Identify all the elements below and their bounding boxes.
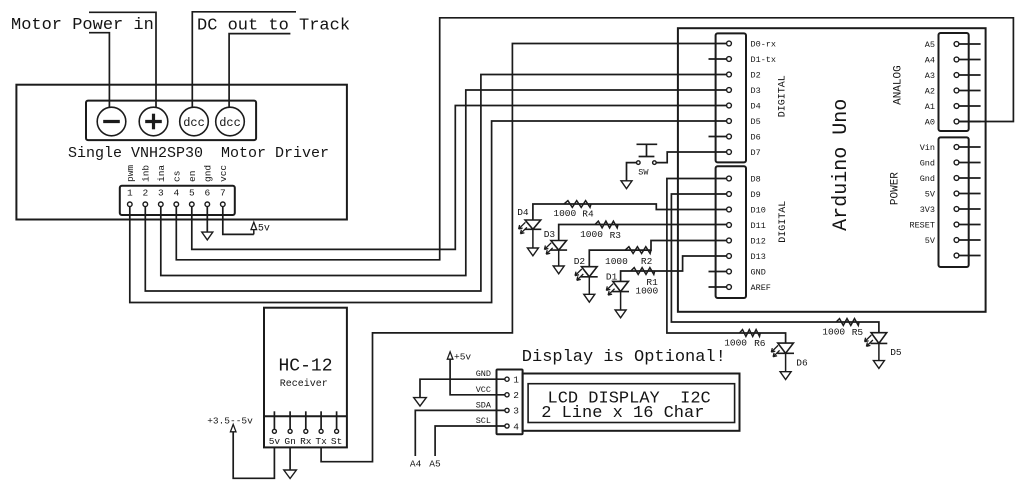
svg-text:DC out to Track: DC out to Track — [197, 16, 350, 35]
label "Receiver" — [280, 378, 328, 390]
label SW — [638, 167, 649, 177]
stub AREF — [709, 286, 727, 288]
pin D3 — [727, 86, 761, 96]
power +3.5--5v arrow — [207, 415, 253, 432]
ground at D5 — [873, 361, 884, 369]
pin 5 label en — [187, 171, 198, 199]
svg-text:D11: D11 — [751, 221, 766, 231]
svg-text:gnd: gnd — [203, 165, 214, 182]
pin D7 — [727, 148, 761, 158]
resistor R3 — [595, 221, 618, 228]
wire D9 to R5 to D5 — [671, 194, 879, 333]
label "LCD DISPLAY I2C" — [548, 389, 711, 408]
pin Vin — [920, 143, 981, 153]
svg-text:1000: 1000 — [822, 327, 845, 338]
pin GND — [727, 268, 766, 278]
wire SW to D7 — [656, 152, 726, 163]
svg-text:4: 4 — [173, 188, 179, 199]
stub D6 — [709, 136, 727, 138]
HC-12 pin Tx — [315, 411, 327, 447]
ground at pin6 — [202, 232, 213, 240]
label "Single VNH2SP30 Motor Driver" — [68, 145, 329, 162]
label R6 — [754, 338, 766, 349]
svg-text:RESET: RESET — [909, 221, 935, 231]
svg-text:D7: D7 — [751, 148, 761, 158]
pushbutton SW — [637, 144, 658, 164]
pin D5 — [727, 117, 761, 127]
wire LCD GND to ground — [420, 379, 505, 397]
label R1 — [646, 277, 658, 288]
LCD pin 1 GND — [476, 369, 520, 385]
ground at D3 — [553, 266, 564, 274]
label DIGITAL lower — [778, 201, 789, 243]
wire pin1 pwm to D5 — [130, 121, 727, 303]
svg-text:5v: 5v — [258, 224, 270, 235]
pin A4 — [925, 56, 981, 66]
label "Motor Power in" — [11, 16, 154, 35]
wire Motor Power in to + terminal — [89, 12, 156, 107]
svg-text:D4: D4 — [517, 207, 529, 218]
svg-text:5v: 5v — [269, 436, 281, 447]
wire HC-12 5v to supply — [233, 432, 274, 478]
power 5v arrow at pin7 — [251, 222, 270, 234]
svg-text:Gnd: Gnd — [920, 159, 935, 169]
wire pin3 ina to D3 — [161, 90, 727, 276]
svg-text:HC-12: HC-12 — [278, 356, 332, 376]
LED D5 — [865, 333, 888, 361]
svg-text:dcc: dcc — [183, 116, 205, 130]
pin 5 circle — [190, 202, 195, 207]
svg-text:5: 5 — [189, 188, 195, 199]
ground at D1 — [615, 310, 626, 318]
svg-text:Vin: Vin — [920, 143, 935, 153]
svg-text:2 Line x 16 Char: 2 Line x 16 Char — [541, 404, 704, 423]
pin Gnd — [920, 174, 981, 184]
pin 3 label ina — [156, 165, 167, 199]
svg-text:D2: D2 — [751, 71, 761, 81]
svg-text:POWER: POWER — [890, 172, 902, 205]
svg-text:vcc: vcc — [218, 165, 229, 182]
svg-text:D9: D9 — [751, 190, 761, 200]
pin unlabeled — [954, 253, 981, 258]
svg-text:Gn: Gn — [284, 436, 295, 447]
label D4 — [517, 207, 529, 218]
wire pin4 cs to A0 — [176, 18, 1013, 260]
svg-text:A1: A1 — [925, 102, 935, 112]
wire LCD SCL to A5 — [435, 426, 505, 456]
svg-text:Arduino Uno: Arduino Uno — [830, 99, 853, 231]
pin 6 label gnd — [203, 165, 214, 199]
wire DC out to dcc terminal 1 — [192, 12, 296, 108]
wire LCD VCC to +5v — [450, 359, 505, 395]
pin RESET — [909, 221, 980, 231]
wire HC-12 Gn to ground — [289, 447, 291, 470]
analog connector A5-A0 — [939, 33, 969, 131]
label R5 — [852, 327, 864, 338]
svg-text:R2: R2 — [641, 256, 653, 267]
Arduino Uno box — [678, 28, 986, 312]
resistor R2 — [625, 247, 651, 254]
motor driver box VNH2SP30 — [16, 85, 347, 220]
svg-text:1: 1 — [513, 375, 519, 386]
digital connector D0-D7 — [716, 33, 746, 162]
pin 5V — [925, 190, 981, 200]
pin D13 — [727, 252, 766, 262]
ground at D6 — [780, 372, 791, 380]
svg-text:cs: cs — [172, 171, 183, 182]
label D5 — [890, 347, 902, 358]
svg-text:GND: GND — [476, 369, 491, 379]
label D3 — [544, 229, 556, 240]
resistor R5 — [836, 319, 859, 326]
label "Display is Optional!" — [522, 348, 726, 367]
label R5 value 1000 — [822, 327, 845, 338]
LED D2 — [575, 267, 598, 295]
pin D9 — [727, 190, 761, 200]
svg-text:5V: 5V — [925, 190, 936, 200]
LED D4 — [519, 220, 542, 248]
svg-text:D8: D8 — [751, 175, 761, 185]
svg-text:R4: R4 — [582, 209, 594, 220]
svg-text:Receiver: Receiver — [280, 378, 328, 390]
wire pin6 gnd — [206, 204, 208, 232]
svg-text:DIGITAL: DIGITAL — [778, 201, 789, 243]
svg-text:D5: D5 — [890, 347, 902, 358]
ground at D4 — [527, 248, 538, 256]
motor driver connector J1 — [120, 186, 235, 215]
label R6 value 1000 — [724, 338, 747, 349]
LCD connector box — [497, 370, 523, 435]
pin 7 circle — [221, 202, 226, 207]
pin D10 — [727, 206, 766, 216]
svg-text:+5v: +5v — [454, 352, 471, 363]
label R3 — [610, 230, 622, 241]
svg-text:1: 1 — [127, 188, 133, 199]
ground at LCD GND — [414, 398, 427, 407]
svg-text:Display is Optional!: Display is Optional! — [522, 348, 726, 367]
label POWER — [890, 172, 902, 205]
svg-text:D1-tx: D1-tx — [751, 55, 777, 65]
svg-text:D3: D3 — [544, 229, 556, 240]
wire D4 to R4 to D10 — [533, 204, 727, 220]
pin 7 label vcc — [218, 165, 229, 199]
HC-12 pin Gn — [284, 411, 295, 447]
label ANALOG — [893, 65, 905, 105]
svg-text:1000: 1000 — [605, 256, 628, 267]
svg-text:R6: R6 — [754, 338, 766, 349]
pin 1 circle — [128, 202, 133, 207]
svg-text:AREF: AREF — [751, 283, 771, 293]
wire SW to ground — [627, 163, 637, 181]
svg-text:A5: A5 — [429, 459, 441, 470]
wire D8 to R6 to D6 — [667, 179, 786, 344]
svg-text:A4: A4 — [410, 459, 422, 470]
svg-text:R3: R3 — [610, 230, 622, 241]
svg-text:D12: D12 — [751, 237, 766, 247]
label DIGITAL upper — [778, 75, 789, 117]
LCD pin 2 VCC — [476, 385, 520, 401]
digital connector D8-AREF — [716, 166, 746, 298]
svg-text:D3: D3 — [751, 86, 761, 96]
svg-text:D13: D13 — [751, 252, 766, 262]
svg-text:SW: SW — [638, 167, 649, 177]
label "HC-12" — [278, 356, 332, 376]
svg-text:3: 3 — [513, 406, 519, 417]
svg-text:Single VNH2SP30 Motor Driver: Single VNH2SP30 Motor Driver — [68, 145, 329, 162]
HC-12 pin 5v — [269, 411, 281, 447]
wire pin7 vcc to 5v — [223, 204, 254, 234]
stub D1-tx — [709, 58, 727, 60]
svg-text:1000: 1000 — [724, 338, 747, 349]
LCD display outer box — [523, 374, 740, 431]
terminal - (minus) — [97, 107, 126, 136]
resistor R4 — [564, 201, 591, 208]
pin 1 label pwm — [125, 165, 136, 199]
svg-text:5V: 5V — [925, 236, 936, 246]
pin 4 label cs — [172, 171, 183, 199]
svg-text:1000: 1000 — [580, 229, 603, 240]
LCD pin 4 SCL — [476, 416, 520, 432]
label "DC out to Track" — [197, 16, 350, 35]
svg-text:en: en — [187, 171, 198, 182]
svg-text:dcc: dcc — [219, 116, 241, 130]
resistor R1 — [631, 268, 655, 275]
LED D1 — [606, 281, 629, 310]
svg-text:ina: ina — [156, 165, 167, 182]
stub GND — [709, 271, 727, 273]
HC-12 box — [264, 308, 347, 448]
svg-text:D1: D1 — [606, 272, 618, 283]
label A5 — [429, 459, 441, 470]
pin D1-tx — [727, 55, 776, 65]
label R4 value 1000 — [553, 208, 576, 219]
svg-text:inb: inb — [141, 165, 152, 182]
svg-text:3V3: 3V3 — [920, 205, 935, 215]
HC-12 pin St — [331, 411, 342, 447]
wire Motor Power in to - terminal — [89, 33, 109, 108]
svg-text:A5: A5 — [925, 40, 935, 50]
LED D6 — [771, 343, 794, 372]
svg-text:2: 2 — [142, 188, 148, 199]
pin Gnd — [920, 159, 981, 169]
pin AREF — [727, 283, 771, 293]
svg-text:3: 3 — [158, 188, 164, 199]
label A4 — [410, 459, 422, 470]
HC-12 pin Rx — [300, 411, 312, 447]
svg-text:1000: 1000 — [635, 285, 658, 296]
label D6 — [796, 358, 808, 369]
wire HC-12 Tx to D0-rx — [321, 44, 726, 462]
svg-text:A3: A3 — [925, 71, 935, 81]
label R3 value 1000 — [580, 229, 603, 240]
svg-text:Rx: Rx — [300, 436, 312, 447]
svg-text:2: 2 — [513, 390, 519, 401]
svg-text:D6: D6 — [751, 133, 761, 143]
ground at SW — [621, 181, 632, 189]
svg-text:A4: A4 — [925, 56, 935, 66]
svg-text:D0-rx: D0-rx — [751, 40, 777, 50]
power connector — [939, 137, 969, 267]
pin 5V — [925, 236, 981, 246]
svg-text:A0: A0 — [925, 118, 935, 128]
pin A2 — [925, 87, 981, 97]
terminal dcc 1 — [180, 107, 209, 136]
pin 3 circle — [159, 202, 164, 207]
wire pin2 inb to D2 — [145, 75, 726, 292]
terminal block — [86, 101, 256, 141]
pin D4 — [727, 102, 761, 112]
svg-text:1000: 1000 — [553, 208, 576, 219]
pin D12 — [727, 237, 766, 247]
wire pin5 en to D4 — [192, 106, 727, 250]
svg-text:GND: GND — [751, 268, 766, 278]
svg-text:A2: A2 — [925, 87, 935, 97]
svg-text:ANALOG: ANALOG — [893, 65, 905, 105]
LCD pin 3 SDA — [476, 400, 520, 416]
LED D3 — [544, 241, 567, 267]
label R4 — [582, 209, 594, 220]
label R2 — [641, 256, 653, 267]
pin 6 circle — [205, 202, 210, 207]
ground at D2 — [584, 294, 595, 302]
svg-text:+3.5--5v: +3.5--5v — [207, 415, 253, 426]
pin D6 — [727, 133, 761, 143]
wire D1 to R1 to D13 — [621, 256, 727, 281]
wire LCD SDA to A4 — [415, 410, 505, 456]
svg-text:Tx: Tx — [315, 436, 327, 447]
pin 4 circle — [174, 202, 179, 207]
svg-text:D6: D6 — [796, 358, 808, 369]
svg-text:D10: D10 — [751, 206, 766, 216]
pin A0 — [925, 118, 981, 128]
pin D8 — [727, 175, 761, 185]
svg-text:St: St — [331, 436, 342, 447]
pin D11 — [727, 221, 766, 231]
svg-text:6: 6 — [204, 188, 210, 199]
terminal dcc 2 — [216, 107, 245, 136]
pin 2 label inb — [141, 165, 152, 199]
pin 3V3 — [920, 205, 981, 215]
ground at HC-12 Gn — [284, 470, 297, 479]
resistor R6 — [740, 330, 761, 337]
wire D3 to R3 to D11 — [559, 225, 727, 241]
pin A5 — [925, 40, 981, 50]
pin D0-rx — [727, 40, 776, 50]
svg-text:4: 4 — [513, 421, 519, 432]
svg-text:SDA: SDA — [476, 400, 492, 410]
wire D2 to R2 to D12 — [589, 241, 726, 267]
label "2 Line x 16 Char" — [541, 404, 704, 423]
label "Arduino Uno" — [830, 99, 853, 231]
svg-text:DIGITAL: DIGITAL — [778, 75, 789, 117]
label R1 value 1000 — [635, 285, 658, 296]
pin 2 circle — [143, 202, 148, 207]
label R2 value 1000 — [605, 256, 628, 267]
svg-text:D2: D2 — [574, 256, 586, 267]
pin D2 — [727, 71, 761, 81]
label D1 — [606, 272, 618, 283]
svg-text:7: 7 — [220, 188, 226, 199]
svg-text:pwm: pwm — [125, 165, 136, 182]
svg-text:Motor Power in: Motor Power in — [11, 16, 154, 35]
label D2 — [574, 256, 586, 267]
pin A3 — [925, 71, 981, 81]
terminal + (plus) — [139, 107, 168, 136]
svg-text:SCL: SCL — [476, 416, 491, 426]
svg-text:D4: D4 — [751, 102, 761, 112]
pin A1 — [925, 102, 981, 112]
svg-text:VCC: VCC — [476, 385, 491, 395]
svg-text:R5: R5 — [852, 327, 864, 338]
LCD display inner box — [528, 384, 735, 423]
wire DC out to dcc terminal 2 — [229, 34, 290, 108]
svg-text:Gnd: Gnd — [920, 174, 935, 184]
power +5v arrow at LCD — [447, 352, 471, 363]
svg-text:D5: D5 — [751, 117, 761, 127]
